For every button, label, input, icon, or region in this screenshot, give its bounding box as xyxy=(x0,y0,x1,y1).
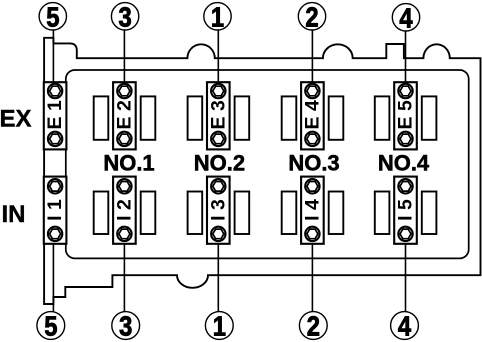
cylinder head outer outline with flange, bumps and notch xyxy=(44,38,480,304)
leader wire circle4 top to cap E5 xyxy=(405,30,407,92)
bolt I2 bottom xyxy=(117,227,131,241)
svg-text:3: 3 xyxy=(118,0,131,32)
intake port slot NO.4 right xyxy=(422,192,437,235)
leader wire circle2 top to cap E4 xyxy=(311,30,313,92)
svg-text:2: 2 xyxy=(307,310,320,342)
svg-text:EX: EX xyxy=(0,106,32,133)
camshaft cap E4 xyxy=(301,82,324,149)
sequence circle 5 bottom xyxy=(37,310,65,342)
svg-text:3: 3 xyxy=(119,310,132,342)
leader wire cap I1 to circle5 bottom xyxy=(52,234,54,312)
intake port slot NO.3 right xyxy=(329,192,344,235)
bolt I5 top xyxy=(398,179,412,193)
sequence circle 4 top xyxy=(392,1,419,33)
camshaft cap I4 xyxy=(301,177,324,244)
svg-text:IN: IN xyxy=(2,201,26,228)
leader wire cap I3 to circle1 bottom xyxy=(217,234,219,312)
camshaft cap I2 xyxy=(113,177,136,244)
svg-text:E 5: E 5 xyxy=(395,100,417,129)
svg-text:I 5: I 5 xyxy=(395,199,417,221)
bolt E2 top xyxy=(117,84,131,98)
inner rounded rectangle (rocker cover surface) xyxy=(66,70,469,258)
exhaust port slot NO.3 left xyxy=(282,96,297,139)
bolt E1 top xyxy=(48,84,62,98)
svg-text:5: 5 xyxy=(44,310,57,342)
svg-text:NO.4: NO.4 xyxy=(378,150,430,175)
exhaust port slot NO.1 left xyxy=(94,96,109,139)
sequence circle 1 bottom xyxy=(205,310,233,342)
leader wire circle1 top to cap E3 xyxy=(217,30,219,92)
sequence circle 1 top xyxy=(204,0,231,32)
svg-text:4: 4 xyxy=(399,1,413,33)
bolt E4 top xyxy=(305,84,319,98)
camshaft cap E5 xyxy=(394,82,417,149)
bolt E4 bottom xyxy=(305,132,319,146)
svg-text:E 3: E 3 xyxy=(207,100,229,129)
bolt E5 top xyxy=(398,84,412,98)
bolt I1 bottom xyxy=(48,227,62,241)
leader wire cap I2 to circle3 bottom xyxy=(123,234,125,312)
bolt E1 bottom xyxy=(48,132,62,146)
svg-text:NO.2: NO.2 xyxy=(194,150,245,175)
leader wire circle3 top to cap E2 xyxy=(123,30,125,92)
intake port slot NO.3 left xyxy=(282,192,297,235)
camshaft cap E3 xyxy=(207,82,230,149)
exhaust port slot NO.3 right xyxy=(329,96,344,139)
intake port slot NO.2 left xyxy=(188,192,203,235)
camshaft cap I3 xyxy=(207,177,230,244)
exhaust port slot NO.4 right xyxy=(422,96,437,139)
svg-text:E 1: E 1 xyxy=(44,100,66,129)
exhaust port slot NO.2 right xyxy=(235,96,250,139)
camshaft cap E2 xyxy=(113,82,136,149)
sequence circle 2 bottom xyxy=(299,310,327,342)
svg-text:5: 5 xyxy=(46,0,59,32)
intake port slot NO.1 left xyxy=(94,192,109,235)
bolt E3 bottom xyxy=(211,132,225,146)
leader wire cap I5 to circle4 bottom xyxy=(405,234,407,312)
svg-text:1: 1 xyxy=(213,310,226,342)
sequence circle 4 bottom xyxy=(391,310,419,342)
svg-text:4: 4 xyxy=(398,310,412,342)
svg-text:I 4: I 4 xyxy=(301,199,323,221)
leader wire circle5 top to cap E1 xyxy=(52,30,54,92)
bolt I4 bottom xyxy=(305,227,319,241)
bolt E5 bottom xyxy=(398,132,412,146)
exhaust port slot NO.1 right xyxy=(141,96,156,139)
sequence circle 2 top xyxy=(298,0,325,32)
svg-text:E 4: E 4 xyxy=(301,100,323,129)
svg-text:2: 2 xyxy=(305,0,318,32)
sequence circle 3 top xyxy=(111,0,138,32)
leader wire cap I4 to circle2 bottom xyxy=(311,234,313,312)
exhaust port slot NO.4 left xyxy=(375,96,390,139)
camshaft cap I5 xyxy=(394,177,417,244)
svg-text:I 2: I 2 xyxy=(113,199,135,221)
camshaft cap E1 xyxy=(44,82,67,149)
svg-text:I 3: I 3 xyxy=(207,199,229,221)
svg-text:I 1: I 1 xyxy=(44,199,66,221)
svg-text:NO.3: NO.3 xyxy=(288,150,339,175)
bolt I3 bottom xyxy=(211,227,225,241)
camshaft cap I1 xyxy=(44,177,67,244)
exhaust port slot NO.2 left xyxy=(188,96,203,139)
svg-text:NO.1: NO.1 xyxy=(103,150,154,175)
svg-text:E 2: E 2 xyxy=(113,100,135,129)
intake port slot NO.1 right xyxy=(141,192,156,235)
bolt I1 top xyxy=(48,179,62,193)
bolt E2 bottom xyxy=(117,132,131,146)
bolt E3 top xyxy=(211,84,225,98)
bolt I5 bottom xyxy=(398,227,412,241)
intake port slot NO.2 right xyxy=(235,192,250,235)
sequence circle 3 bottom xyxy=(112,310,140,342)
bolt I4 top xyxy=(305,179,319,193)
bolt I3 top xyxy=(211,179,225,193)
intake port slot NO.4 left xyxy=(375,192,390,235)
bolt I2 top xyxy=(117,179,131,193)
sequence circle 5 top xyxy=(39,0,66,32)
svg-text:1: 1 xyxy=(211,0,224,32)
